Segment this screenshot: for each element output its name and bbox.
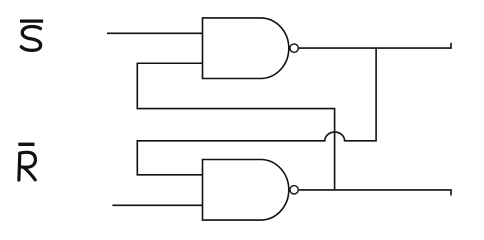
wire R input: [112, 204, 202, 206]
output bubble U1: [290, 44, 298, 52]
NAND gate U2: [203, 160, 289, 221]
input label R-bar: [18, 143, 35, 180]
NAND gate U1: [203, 18, 289, 79]
wire Qbar output: [299, 190, 451, 196]
output bubble U2: [290, 186, 298, 194]
wire feedback from Q to U2 upper input with hop over Qbar line: [137, 48, 376, 175]
wire S input: [107, 32, 203, 34]
input label S-bar: [20, 20, 43, 51]
wire U1 lower input feedback from Qbar node: [137, 63, 334, 190]
wire Q output: [299, 43, 451, 48]
